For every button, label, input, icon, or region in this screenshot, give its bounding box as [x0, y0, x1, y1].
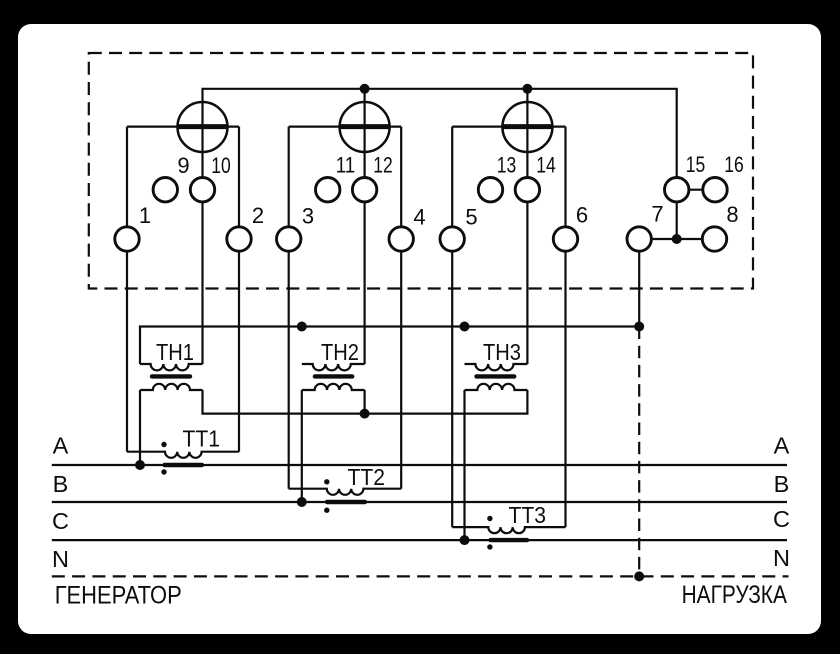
- terminal 12: [352, 178, 376, 202]
- wire: element 3 vertical (top bus to TH3 primary): [526, 89, 528, 364]
- svg-text:5: 5: [465, 204, 477, 229]
- CT TT3 primary bar: [491, 538, 528, 542]
- terminal 9: [153, 178, 177, 202]
- VT TH2 secondary winding: [302, 384, 365, 390]
- svg-text:16: 16: [724, 152, 744, 177]
- svg-text:C: C: [52, 508, 69, 534]
- VT TH3 primary winding: [465, 364, 528, 370]
- wire: element 3 current-coil horizontal: [452, 125, 565, 127]
- wire: element 2 vertical (top bus to TH2 primary): [364, 89, 366, 364]
- wire: terminal 7 to terminal 8 link: [639, 238, 714, 240]
- junction node terminal 15 drop / 7-8 link: [672, 234, 682, 244]
- polarity dot TT1 primary: [161, 469, 166, 474]
- phase line A: [52, 464, 787, 466]
- svg-text:4: 4: [413, 204, 425, 229]
- svg-text:8: 8: [726, 202, 738, 227]
- polarity dot TT1 secondary: [161, 442, 166, 447]
- wire: terminal 4 down to TT2 secondary right: [400, 127, 402, 489]
- svg-text:10: 10: [211, 153, 231, 178]
- svg-text:9: 9: [177, 153, 189, 178]
- wire: TH2 secondary left to phase B: [301, 390, 303, 502]
- CT TT2 primary bar: [327, 500, 365, 504]
- wire: terminal 5 down to TT3 secondary left: [451, 127, 453, 527]
- junction node phase A / TH1: [135, 460, 145, 470]
- svg-text:14: 14: [536, 153, 556, 178]
- wire: TH1 secondary left to phase A: [139, 390, 141, 465]
- terminal 2: [227, 227, 251, 251]
- svg-text:1: 1: [139, 203, 151, 228]
- polarity dot TT3 secondary: [487, 516, 492, 521]
- svg-text:11: 11: [336, 153, 356, 178]
- wire: element 1 current-coil horizontal: [127, 125, 239, 127]
- svg-text:12: 12: [373, 153, 393, 178]
- svg-text:7: 7: [651, 201, 663, 226]
- terminal 1: [115, 227, 139, 251]
- junction node voltage bus / TH3: [460, 322, 470, 332]
- meter terminal box (dashed): [89, 53, 753, 289]
- junction node voltage bus / TH2: [297, 322, 307, 332]
- wire: terminal 7 down to voltage bus: [638, 239, 640, 327]
- junction node N line / neutral drop: [634, 571, 644, 581]
- svg-text:НАГРУЗКА: НАГРУЗКА: [682, 581, 788, 609]
- terminal 10: [190, 178, 214, 202]
- polarity dot TT2 secondary: [324, 479, 329, 484]
- CT TT2 secondary winding: [289, 489, 402, 495]
- junction node phase B / TH2: [297, 497, 307, 507]
- wire: element 1 vertical (through meter element to TH1 primary): [201, 102, 203, 364]
- svg-text:6: 6: [576, 203, 588, 228]
- svg-text:N: N: [52, 546, 69, 572]
- CT TT3 secondary winding: [452, 527, 565, 533]
- terminal 13: [478, 178, 502, 202]
- VT TH1 secondary winding: [140, 384, 203, 390]
- wire: TH3 secondary left to phase C: [463, 390, 465, 540]
- terminal 4: [389, 227, 413, 251]
- terminal 7: [627, 227, 651, 251]
- polarity dot TT2 primary: [324, 508, 329, 513]
- junction node top bus / element 3: [522, 84, 532, 94]
- junction node secondary link / TH2: [360, 409, 370, 419]
- VT TH3 secondary winding: [465, 384, 528, 390]
- polarity dot TT3 primary: [487, 544, 492, 549]
- terminal 5: [440, 227, 464, 251]
- svg-text:A: A: [774, 432, 790, 458]
- wire: dashed neutral drop to N line: [638, 327, 640, 577]
- phase line B: [52, 501, 787, 503]
- terminal 16: [703, 178, 727, 202]
- meter element 3 (measuring element): [502, 102, 552, 152]
- svg-text:ТН2: ТН2: [321, 339, 359, 365]
- svg-text:B: B: [53, 471, 69, 497]
- wire: terminal 15 to terminal 16 link: [677, 189, 715, 191]
- phase line C: [52, 539, 787, 541]
- svg-text:ТН1: ТН1: [156, 339, 194, 365]
- svg-text:B: B: [774, 471, 790, 497]
- terminal 14: [515, 178, 539, 202]
- terminal 11: [316, 178, 340, 202]
- VT TH3 core: [477, 374, 515, 378]
- VT TH1 core: [152, 374, 190, 378]
- wire: TH2 secondary right to link: [364, 390, 366, 414]
- terminal 8: [702, 227, 726, 251]
- terminal 3: [277, 227, 301, 251]
- svg-text:ТТ1: ТТ1: [183, 425, 221, 451]
- svg-text:2: 2: [252, 203, 264, 228]
- neutral line N (dashed): [52, 575, 789, 577]
- svg-text:13: 13: [497, 153, 517, 178]
- svg-text:C: C: [773, 506, 790, 532]
- VT TH2 primary winding: [302, 364, 365, 370]
- svg-text:A: A: [53, 432, 69, 458]
- wire: terminal 2 down to TT1 secondary right: [238, 127, 240, 452]
- svg-text:ТТ2: ТТ2: [348, 464, 386, 490]
- wire: VT secondary link TH1-TH2-TH3: [203, 390, 528, 414]
- terminal 6: [553, 227, 577, 251]
- wire: terminal 6 down to TT3 secondary right: [564, 127, 566, 527]
- CT TT1 primary bar: [165, 463, 203, 467]
- svg-text:N: N: [773, 545, 790, 571]
- junction node phase C / TH3: [460, 535, 470, 545]
- junction node top bus / element 2: [360, 84, 370, 94]
- svg-text:ГЕНЕРАТОР: ГЕНЕРАТОР: [55, 581, 182, 609]
- CT TT1 secondary winding: [127, 452, 239, 458]
- svg-text:ТН3: ТН3: [483, 339, 521, 365]
- VT TH2 core: [315, 374, 352, 378]
- wire: voltage bus (TH primaries common): [140, 327, 639, 365]
- wire: terminal 3 down to TT2 secondary left: [288, 127, 290, 489]
- meter element 1 (measuring element): [178, 102, 228, 152]
- svg-text:ТТ3: ТТ3: [509, 502, 547, 528]
- junction node voltage bus / neutral drop: [634, 322, 644, 332]
- meter element 2 (measuring element): [340, 102, 390, 152]
- VT TH1 primary winding: [140, 364, 203, 370]
- wire: element 2 current-coil horizontal: [289, 125, 402, 127]
- wire: top bus from element 1 to terminal 15: [203, 89, 677, 239]
- svg-text:15: 15: [686, 152, 706, 177]
- terminal 15: [665, 178, 689, 202]
- svg-text:3: 3: [302, 204, 314, 229]
- wire: terminal 1 down to TT1 secondary left: [126, 127, 128, 452]
